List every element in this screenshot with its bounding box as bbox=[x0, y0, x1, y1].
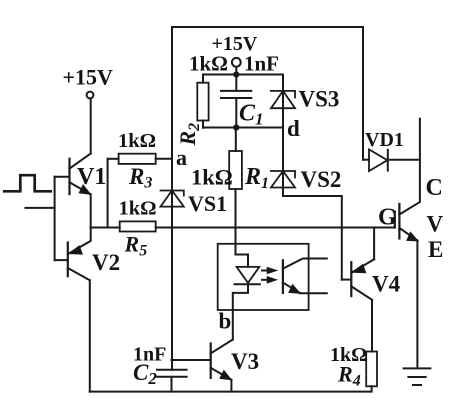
ground bbox=[404, 368, 431, 385]
svg-text:d: d bbox=[287, 116, 300, 141]
svg-text:1kΩ: 1kΩ bbox=[191, 165, 233, 190]
svg-text:VS1: VS1 bbox=[188, 191, 227, 216]
wire bottom rail bbox=[90, 386, 372, 391]
wire top rail bbox=[172, 26, 363, 28]
V2 emitter arrow bbox=[69, 246, 82, 254]
V1 emitter arrow bbox=[79, 185, 90, 194]
transistor V1 bbox=[55, 154, 91, 228]
svg-text:1kΩ: 1kΩ bbox=[119, 198, 157, 220]
svg-text:E: E bbox=[428, 237, 443, 262]
transistor V4 bbox=[342, 228, 374, 300]
svg-text:V: V bbox=[427, 212, 444, 237]
zener VS3 bbox=[271, 91, 295, 108]
wire terminal to node bbox=[235, 67, 237, 75]
resistor R2 bbox=[197, 75, 208, 128]
svg-text:V1: V1 bbox=[77, 164, 106, 190]
capacitor C1 bbox=[221, 75, 251, 128]
resistor R1 bbox=[229, 128, 242, 245]
resistor R3 bbox=[108, 154, 172, 228]
svg-text:1kΩ: 1kΩ bbox=[118, 130, 156, 152]
terminal +15V left bbox=[87, 92, 94, 99]
node dot top bbox=[233, 71, 239, 77]
wire top H-line bbox=[203, 74, 283, 76]
wire input line bbox=[25, 207, 54, 209]
optocoupler LED bbox=[233, 244, 260, 340]
wire R5 to gate G bbox=[156, 227, 395, 229]
V4 emitter arrow bbox=[352, 265, 365, 273]
V3 emitter arrow bbox=[220, 371, 231, 380]
wire VS3/VS2 column bbox=[283, 75, 342, 280]
resistor R4 bbox=[366, 300, 377, 386]
zener VS1 bbox=[161, 191, 184, 207]
wire bottom H-line (node d line) bbox=[203, 127, 283, 129]
square wave input symbol bbox=[4, 175, 51, 191]
terminal +15V top bbox=[232, 58, 241, 67]
optocoupler light arrows bbox=[262, 267, 277, 283]
svg-text:VS2: VS2 bbox=[301, 167, 342, 192]
diode VD1 bbox=[363, 149, 420, 171]
resistor R5 bbox=[91, 221, 156, 231]
svg-text:G: G bbox=[378, 205, 397, 231]
IGBT emitter arrow bbox=[407, 232, 418, 241]
svg-text:V4: V4 bbox=[372, 272, 401, 297]
wire column A (node a / VS1 / V3 base / C2) bbox=[171, 27, 173, 370]
svg-text:VS3: VS3 bbox=[299, 87, 340, 112]
opto emitter arrow bbox=[289, 285, 300, 294]
transistor V2 bbox=[55, 228, 91, 392]
svg-text:+15V: +15V bbox=[63, 65, 114, 90]
wire top-right descent to VD1 anode bbox=[362, 27, 364, 160]
svg-text:VD1: VD1 bbox=[365, 129, 404, 151]
svg-text:V3: V3 bbox=[231, 349, 259, 374]
IGBT V bbox=[395, 119, 420, 368]
svg-text:C: C bbox=[426, 175, 443, 201]
svg-text:V2: V2 bbox=[92, 250, 120, 275]
optocoupler box bbox=[218, 244, 309, 310]
svg-text:1nF: 1nF bbox=[244, 52, 279, 76]
node dot bottom bbox=[233, 124, 239, 130]
zener VS2 bbox=[271, 171, 295, 188]
svg-text:1kΩ: 1kΩ bbox=[189, 52, 228, 76]
svg-text:a: a bbox=[176, 145, 187, 170]
svg-text:b: b bbox=[219, 309, 232, 334]
optocoupler phototransistor bbox=[283, 259, 327, 294]
transistor V3 bbox=[172, 340, 233, 392]
wire +15V to V1 collector bbox=[90, 99, 92, 154]
capacitor C2 bbox=[157, 370, 187, 392]
wire base column bbox=[54, 177, 56, 260]
